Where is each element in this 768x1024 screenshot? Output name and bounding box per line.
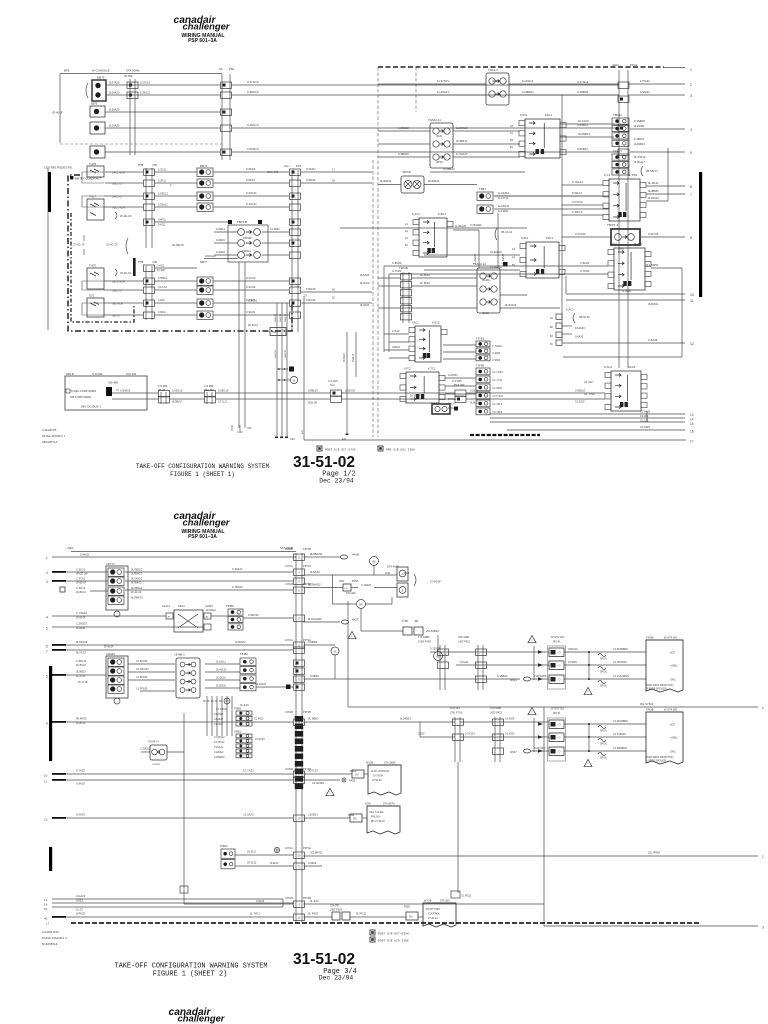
svg-text:0L.9B03: 0L.9B03 <box>308 717 319 721</box>
svg-text:1L15N11: 1L15N11 <box>498 204 510 208</box>
top frame line sheet 2 <box>71 551 296 553</box>
svg-text:C1.94Z3: C1.94Z3 <box>640 425 651 429</box>
svg-text:A6 P6D: A6 P6D <box>124 75 133 78</box>
svg-text:0.37G11: 0.37G11 <box>577 80 589 84</box>
svg-text:0.4F11: 0.4F11 <box>158 218 166 222</box>
svg-text:J423 P422: J423 P422 <box>458 641 471 644</box>
svg-text:C1/4H22: C1/4H22 <box>214 714 224 716</box>
wire terminal 17 <box>304 439 686 441</box>
change bar left sheet1 <box>48 172 51 212</box>
svg-text:SPOIL: SPOIL <box>600 671 608 674</box>
svg-text:LNG T GLAM: LNG T GLAM <box>369 811 383 814</box>
wire bus 645 right <box>304 644 336 646</box>
wire glam row right <box>304 817 351 819</box>
svg-text:0L9B22W: 0L9B22W <box>310 552 323 556</box>
svg-text:C3.4R33N: C3.4R33N <box>312 781 324 785</box>
svg-text:4A6B: 4A6B <box>352 553 359 557</box>
svg-text:P91B: P91B <box>404 906 410 909</box>
svg-text:Dec 23/94: Dec 23/94 <box>319 478 354 485</box>
riser pair 347 356 <box>346 332 348 434</box>
svg-text:2F-80-0F: 2F-80-0F <box>76 723 86 725</box>
svg-text:4A5T: 4A5T <box>352 618 359 622</box>
label battery quadrant <box>70 176 73 179</box>
svg-text:C1.6C033: C1.6C033 <box>136 660 148 663</box>
svg-text:S0C1 C7: S0C1 C7 <box>112 289 123 293</box>
svg-text:0L38A20: 0L38A20 <box>109 91 120 95</box>
svg-text:0L94B33: 0L94B33 <box>400 717 411 721</box>
svg-text:0.5L20: 0.5L20 <box>460 660 469 664</box>
svg-text:J3P08: J3P08 <box>402 170 411 174</box>
svg-text:174 2B9: 174 2B9 <box>158 385 168 388</box>
svg-text:0.4211: 0.4211 <box>158 224 166 227</box>
bus crossing boxes sheet 2 <box>294 554 305 560</box>
A33 end marks <box>275 437 278 439</box>
svg-text:1L/9G11: 1L/9G11 <box>522 79 534 83</box>
svg-text:0L9L1B: 0L9L1B <box>308 401 317 405</box>
svg-text:0.9B03: 0.9B03 <box>308 640 317 644</box>
svg-text:C11D3L2: C11D3L2 <box>214 752 224 754</box>
svg-text:201NA12: 201NA12 <box>205 254 216 258</box>
svg-text:0L9122: 0L9122 <box>270 862 279 865</box>
svg-text:J16A: J16A <box>365 803 371 806</box>
svg-text:0B1A9071Z: 0B1A9071Z <box>42 440 58 444</box>
svg-text:W1CB: W1CB <box>366 762 374 765</box>
wire spoiler row 2 <box>456 664 549 666</box>
svg-text:(S) REL COMP WARN: (S) REL COMP WARN <box>70 389 96 393</box>
junction vertical module 2 <box>588 724 590 751</box>
svg-text:0.50G12: 0.50G12 <box>247 147 259 151</box>
svg-text:C1.46C033: C1.46C033 <box>136 668 149 671</box>
svg-text:T3A03-14: T3A03-14 <box>473 262 486 266</box>
svg-text:C.76A23: C.76A23 <box>76 611 87 615</box>
svg-text:P3T0B: P3T0B <box>303 710 311 714</box>
svg-text:10.QC33: 10.QC33 <box>255 738 265 741</box>
svg-text:C1.7G33: C1.7G33 <box>493 371 504 374</box>
svg-text:TRGB: TRGB <box>646 708 654 712</box>
wires T3P2B right <box>412 277 477 279</box>
svg-text:C.5G10: C.5G10 <box>76 586 86 590</box>
svg-text:0.35G19: 0.35G19 <box>172 389 183 393</box>
wires C8C8C to T8Y8B-3 <box>128 663 175 665</box>
wire row to terminal 2 <box>106 84 220 86</box>
svg-text:A33: A33 <box>290 437 295 441</box>
svg-text:1L43A20: 1L43A20 <box>455 224 467 228</box>
long wire 30L SY603 terminal 1 <box>347 601 349 707</box>
wire connector BM75 to column <box>105 111 220 113</box>
svg-text:PRE S/B 601 3398: PRE S/B 601 3398 <box>386 448 415 452</box>
svg-text:0L10N959: 0L10N959 <box>646 263 659 267</box>
left label row 590 <box>60 587 65 592</box>
svg-text:C1.7AZ3: C1.7AZ3 <box>243 769 254 773</box>
svg-text:W STA 981: W STA 981 <box>664 708 678 712</box>
svg-text:C8Y8B-3: C8Y8B-3 <box>174 653 185 657</box>
svg-text:28V DC BUS 1: 28V DC BUS 1 <box>81 405 101 409</box>
wires switches to column lower <box>104 280 143 282</box>
svg-text:1: 1 <box>690 68 692 72</box>
left terminal 1 wire <box>52 556 296 558</box>
wires BM7T to pedestal bus <box>214 280 290 282</box>
svg-text:C17L11: C17L11 <box>218 400 228 404</box>
svg-text:O: O <box>559 665 561 668</box>
wire J3P08 right <box>424 184 477 186</box>
wire bus 866 right <box>304 865 323 867</box>
svg-text:JA6T: JA6T <box>67 546 74 550</box>
warning triangle below module 2 <box>584 760 592 767</box>
spoil squiggles module 2 <box>598 726 606 729</box>
svg-text:0L3B411: 0L3B411 <box>456 139 468 143</box>
wire 0.15A020 long <box>340 227 527 229</box>
svg-text:SPOIL: SPOIL <box>600 730 608 733</box>
svg-text:11D422: 11D422 <box>216 250 225 254</box>
svg-text:J7B: J7B <box>152 260 157 264</box>
svg-text:C1/5X022: C1/5X022 <box>140 749 151 751</box>
svg-text:K2C1: K2C1 <box>610 242 617 246</box>
svg-text:9PY41: 9PY41 <box>553 712 561 715</box>
left terminal 40 wire <box>52 916 66 918</box>
svg-text:0.33C11: 0.33C11 <box>246 202 257 206</box>
warning triangle module 2 <box>528 708 536 715</box>
svg-text:0.38G12: 0.38G12 <box>247 90 259 94</box>
change bar left sheet 2 lower <box>49 847 52 871</box>
svg-text:8: 8 <box>690 185 692 189</box>
svg-text:T96B0: T96B0 <box>220 845 228 848</box>
vertical wires K4C1 to T3A03 <box>478 230 480 268</box>
left terminal 5 row 626 <box>52 626 204 628</box>
svg-text:C17Y622: C17Y622 <box>493 395 504 398</box>
svg-text:+GBN: +GBN <box>670 665 677 668</box>
svg-text:16: 16 <box>690 430 694 434</box>
svg-text:3K NL20: 3K NL20 <box>344 352 346 362</box>
svg-text:27-NC-1F: 27-NC-1F <box>73 243 85 247</box>
svg-text:T8M37: T8M37 <box>613 150 622 154</box>
svg-text:C.8N22: C.8N22 <box>580 261 590 265</box>
svg-text:C.19A22: C.19A22 <box>232 567 243 571</box>
svg-text:12: 12 <box>44 818 48 822</box>
left terminals 5 7 rows 645 650 <box>52 644 66 646</box>
svg-text:0.4C33: 0.4C33 <box>246 276 256 280</box>
svg-text:20-NB-CF: 20-NB-CF <box>172 243 184 247</box>
wires T3P2B left <box>378 277 400 279</box>
svg-text:6,6C1: 6,6C1 <box>520 113 528 117</box>
inner dashed boundary battery quadrant <box>71 213 134 322</box>
svg-text:C13A022: C13A022 <box>490 250 502 254</box>
svg-text:2F-40-0F: 2F-40-0F <box>52 111 63 115</box>
svg-text:0.7A23: 0.7A23 <box>76 769 85 773</box>
wires switches to column upper <box>105 171 143 173</box>
svg-text:3: 3 <box>46 580 48 584</box>
svg-text:J09B1: J09B1 <box>234 731 242 734</box>
svg-text:C.78A22: C.78A22 <box>232 585 243 589</box>
svg-text:0L3C20: 0L3C20 <box>360 281 370 285</box>
svg-text:P7B: P7B <box>138 260 143 264</box>
node circle A1 spoiler <box>331 647 339 655</box>
warning triangle 4A5T <box>348 632 356 639</box>
svg-text:0.3F3U: 0.3F3U <box>306 167 315 171</box>
svg-text:C.7N22: C.7N22 <box>392 269 402 273</box>
wire terminal 12 <box>562 342 685 344</box>
svg-text:TREN WEFF DETECTOR: TREN WEFF DETECTOR <box>646 757 673 759</box>
warning triangle below module 1 <box>584 688 592 695</box>
svg-text:C1.W23RF2: C1.W23RF2 <box>613 661 627 664</box>
svg-text:A33: A33 <box>247 427 252 430</box>
svg-text:0.922: 0.922 <box>418 732 425 736</box>
riser STA 343 column down <box>457 762 459 893</box>
svg-text:0.9A23: 0.9A23 <box>76 782 85 786</box>
svg-text:POST S/B 8C9 3398: POST S/B 8C9 3398 <box>378 939 409 943</box>
dashed heavy segment <box>470 434 540 436</box>
svg-text:ACP: ACP <box>670 724 675 727</box>
svg-text:A3Z: A3Z <box>301 429 304 434</box>
wire T8Y8F right to riser <box>167 751 184 753</box>
wire T84B2 row 687 to bus <box>256 686 293 688</box>
svg-text:C.18A20: C.18A20 <box>361 583 372 587</box>
svg-text:6C3A5871Z: 6C3A5871Z <box>42 942 58 946</box>
svg-text:LFF: LFF <box>284 164 289 168</box>
svg-text:2: 2 <box>690 83 692 87</box>
svg-text:0./5B422: 0./5B422 <box>443 167 455 171</box>
svg-text:GNC: GNC <box>670 679 676 682</box>
svg-text:S0CL C7: S0CL C7 <box>112 182 123 186</box>
svg-text:0L7BAG7: 0L7BAG7 <box>131 573 142 576</box>
svg-text:0L5L12: 0L5L12 <box>470 401 479 405</box>
svg-text:ACP: ACP <box>670 652 675 655</box>
svg-text:CF1B22: CF1B22 <box>152 764 161 766</box>
svg-text:27-50-00: 27-50-00 <box>372 779 382 782</box>
wire spoiler row 1 <box>430 651 549 653</box>
wire J4C1 0.10A33 <box>562 325 572 327</box>
svg-text:SD1: SD1 <box>89 294 95 298</box>
svg-text:0L3R022: 0L3R022 <box>380 179 392 183</box>
svg-text:11: 11 <box>44 780 47 784</box>
svg-text:!: ! <box>532 710 533 714</box>
svg-text:P4G3: P4G3 <box>630 63 638 67</box>
svg-text:0.5G33: 0.5G33 <box>306 287 316 291</box>
svg-text:0L13G11: 0L13G11 <box>216 661 226 664</box>
svg-text:(3PF1): (3PF1) <box>436 161 444 164</box>
svg-text:20.9122: 20.9122 <box>247 861 257 865</box>
svg-text:FIGURE 1 (SHEET 2): FIGURE 1 (SHEET 2) <box>153 971 227 979</box>
wire K2C1 right <box>651 267 682 269</box>
bus dark connector segment <box>295 716 303 722</box>
wires BM71 to pedestal bus <box>214 171 290 173</box>
svg-text:P3T: P3T <box>296 164 301 168</box>
svg-text:1L29A20: 1L29A20 <box>456 126 468 130</box>
svg-text:11D622: 11D622 <box>216 238 225 242</box>
svg-text:SPOIL: SPOIL <box>600 658 608 661</box>
svg-text:1: 1 <box>46 556 48 560</box>
svg-text:3A3C20: 3A3C20 <box>274 313 277 322</box>
svg-text:challenger: challenger <box>183 517 231 528</box>
wire spoiler2 row 1 continue <box>460 721 549 723</box>
wire 28VDC row 1 <box>112 392 158 394</box>
svg-text:C.7N22: C.7N22 <box>580 269 590 273</box>
station boundary dashed line top <box>378 66 664 68</box>
svg-text:T8F87-3: T8F87-3 <box>607 223 618 227</box>
svg-text:6C43A-315/C3F1 2: 6C43A-315/C3F1 2 <box>42 936 67 940</box>
svg-text:0.14020: 0.14020 <box>505 732 515 736</box>
svg-text:THD7: THD7 <box>89 264 97 268</box>
svg-text:0L7BAG3: 0L7BAG3 <box>131 596 143 600</box>
svg-text:THD7: THD7 <box>89 195 97 199</box>
svg-text:AL9B1: AL9B1 <box>205 604 213 608</box>
wires K6C1 lower left <box>424 254 520 256</box>
svg-text:9: 9 <box>46 722 48 726</box>
svg-text:(4B1): (4B1) <box>492 80 498 83</box>
svg-text:J47GB: J47GB <box>285 582 293 586</box>
svg-text:0.9G2: 0.9G2 <box>158 299 165 302</box>
svg-text:40: 40 <box>44 917 48 921</box>
junction tick to square <box>277 368 288 370</box>
wire T3A03 row2 right <box>500 294 527 296</box>
svg-text:PA2L: PA2L <box>404 572 411 575</box>
svg-text:2F-DD-1W: 2F-DD-1W <box>76 573 88 576</box>
svg-text:TAKE-OFF CONFIGURATION WARNING: TAKE-OFF CONFIGURATION WARNING SYSTEM <box>136 463 270 470</box>
svg-text:7: 7 <box>690 193 692 197</box>
svg-text:17: 17 <box>690 440 694 444</box>
svg-text:0L7B5G2: 0L7B5G2 <box>131 568 143 572</box>
svg-text:P3T0A: P3T0A <box>303 564 311 568</box>
svg-text:DB4 B: DB4 B <box>66 372 74 376</box>
vertical wire 562 <box>561 95 563 340</box>
svg-text:3A4C12: 3A4C12 <box>284 313 287 322</box>
left terminal 12 glam row <box>52 817 66 819</box>
svg-text:BB75: BB75 <box>91 102 98 106</box>
svg-text:STA 353: STA 353 <box>440 900 450 903</box>
svg-text:0.38G12: 0.38G12 <box>140 91 151 95</box>
heavy dashed bottom boundary <box>71 922 700 924</box>
svg-text:0L9B23: 0L9B23 <box>76 670 86 674</box>
wire 4A55 socket <box>304 779 341 781</box>
svg-text:C1.6A23: C1.6A23 <box>243 813 254 817</box>
svg-text:W STA 981: W STA 981 <box>664 636 678 640</box>
vertical wires TBP1 region down <box>238 262 240 428</box>
svg-text:T9TB1: T9TB1 <box>476 337 485 341</box>
svg-text:10: 10 <box>44 774 48 778</box>
wire terminal 3 bottom <box>544 925 758 927</box>
svg-text:0.35G09: 0.35G09 <box>345 389 356 393</box>
svg-text:C8C8C: C8C8C <box>106 652 115 656</box>
vertical wire right 546 <box>543 707 545 926</box>
svg-text:C1.9033: C1.9033 <box>493 387 503 390</box>
svg-text:3G4L12: 3G4L12 <box>353 353 355 362</box>
left terminal 4 wire <box>52 571 66 573</box>
svg-text:0.55612: 0.55612 <box>158 277 168 280</box>
svg-text:15: 15 <box>44 907 48 911</box>
svg-text:O: O <box>559 652 561 655</box>
svg-text:C1.9A03: C1.9A03 <box>640 410 651 414</box>
svg-text:SPOIL: SPOIL <box>600 685 608 688</box>
wires K2C1 left <box>384 265 608 267</box>
svg-text:O: O <box>559 679 561 682</box>
svg-text:PSP 601–3A: PSP 601–3A <box>188 534 217 540</box>
svg-text:0.4C33: 0.4C33 <box>246 285 256 289</box>
svg-text:2F-2F-0F: 2F-2F-0F <box>131 591 142 594</box>
svg-text:S0C2 NCR: S0C2 NCR <box>112 280 125 284</box>
svg-text:27-60-0F: 27-60-0F <box>430 580 441 584</box>
svg-text:STA 280M: STA 280M <box>384 762 396 765</box>
svg-text:0L3NA01: 0L3NA01 <box>648 196 659 200</box>
svg-text:SFCL NCR: SFCL NCR <box>112 171 125 175</box>
svg-text:0.27A19: 0.27A19 <box>572 200 583 204</box>
svg-text:!: ! <box>330 791 331 795</box>
svg-text:J47GB: J47GB <box>285 710 293 714</box>
svg-text:0.9A22: 0.9A22 <box>80 553 90 557</box>
svg-text:J47GB: J47GB <box>285 547 293 551</box>
spoil squiggles module 1 <box>598 654 606 657</box>
vertical riser 184 down <box>183 713 185 904</box>
svg-text:J37CA: J37CA <box>285 638 293 642</box>
svg-text:SPOIL: SPOIL <box>600 757 608 760</box>
svg-text:K6C1: K6C1 <box>546 236 553 240</box>
svg-text:C1.WC3BBN: C1.WC3BBN <box>613 720 628 723</box>
svg-text:4: 4 <box>46 616 48 620</box>
svg-text:0.6F31: 0.6F31 <box>246 178 255 182</box>
svg-text:0L3A20: 0L3A20 <box>360 303 370 307</box>
wire bus 622 4A5T <box>304 621 341 623</box>
svg-text:0.L4B32: 0.L4B32 <box>270 227 280 231</box>
svg-text:JA2L: JA2L <box>385 572 391 575</box>
svg-text:C16B23: C16B23 <box>308 813 318 817</box>
svg-text:(R PREP SPOILER): (R PREP SPOILER) <box>646 689 667 691</box>
wire row 904 <box>184 903 293 905</box>
wires T9TB1 left <box>443 344 476 346</box>
svg-text:C1.7Y11: C1.7Y11 <box>493 379 503 382</box>
svg-text:C1/4K22: C1/4K22 <box>214 719 224 721</box>
node circle B4 <box>357 600 366 609</box>
svg-text:AL/01: AL/01 <box>628 365 636 369</box>
svg-text:0.53L13: 0.53L13 <box>572 191 583 195</box>
svg-text:P7B: P7B <box>138 163 143 167</box>
svg-text:0L9N611: 0L9N611 <box>648 302 659 306</box>
svg-text:174 0B9: 174 0B9 <box>204 385 214 388</box>
svg-text:0L9B2V: 0L9B2V <box>172 400 182 404</box>
svg-text:P3T0B: P3T0B <box>303 547 311 551</box>
wires stack to TRGB 1 <box>564 651 646 653</box>
svg-text:C1.9W3BLN: C1.9W3BLN <box>613 747 627 750</box>
svg-text:S0L NCR: S0L NCR <box>112 302 123 306</box>
svg-text:2CL53B22: 2CL53B22 <box>426 629 439 633</box>
wires pedestal bus to boundary lower <box>301 291 372 293</box>
svg-text:C1.74Z3: C1.74Z3 <box>493 411 503 414</box>
svg-text:J37CA: J37CA <box>285 564 293 568</box>
svg-text:0L.PA11: 0L.PA11 <box>250 912 260 916</box>
wires BM7T to column lower <box>155 267 198 269</box>
svg-text:0.3NA19: 0.3NA19 <box>120 389 131 393</box>
svg-text:FLAP CONTROL: FLAP CONTROL <box>371 770 390 773</box>
svg-text:2F-B0-1F: 2F-B0-1F <box>76 582 87 585</box>
svg-text:0L.M131: 0L.M131 <box>648 181 659 185</box>
svg-text:STA 343: STA 343 <box>450 706 460 710</box>
svg-text:CONTROL: CONTROL <box>428 913 440 916</box>
svg-text:0L7A5G2: 0L7A5G2 <box>131 577 143 581</box>
svg-text:Dec 23/94: Dec 23/94 <box>319 975 354 982</box>
frame top-left border <box>60 73 222 75</box>
svg-text:C.96C13: C.96C13 <box>76 659 87 663</box>
svg-text:0.9D12: 0.9D12 <box>392 346 401 349</box>
vertical feeds to K6CL relay <box>383 266 385 352</box>
svg-text:T8Y8F-7Y: T8Y8F-7Y <box>148 741 159 744</box>
svg-text:0.5F019: 0.5F019 <box>568 647 578 651</box>
svg-text:(3A01): (3A01) <box>482 312 489 315</box>
svg-text:FIGURE 1 (SHEET 1): FIGURE 1 (SHEET 1) <box>170 471 235 478</box>
svg-text:2F-B0-1F: 2F-B0-1F <box>76 664 87 667</box>
svg-text:174 1W9: 174 1W9 <box>328 380 338 383</box>
svg-text:J47GB: J47GB <box>285 767 293 771</box>
svg-text:S1A TR1: S1A TR1 <box>330 905 340 908</box>
change bar left sheet 2 upper <box>49 666 52 761</box>
svg-text:TAKE-OFF CONFIGURATION WARNING: TAKE-OFF CONFIGURATION WARNING SYSTEM <box>115 963 268 971</box>
svg-text:0L59A20: 0L59A20 <box>109 108 120 112</box>
